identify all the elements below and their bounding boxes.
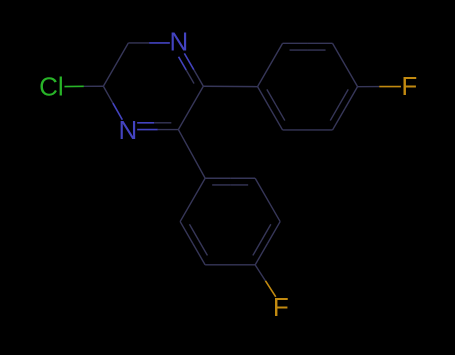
lower phenyl double V5=V6 — [180, 222, 207, 265]
upper phenyl edge P3-P4 — [333, 43, 358, 86]
upper phenyl double P2=P3 (top) — [283, 43, 333, 50]
upper phenyl double P6=P1 — [258, 87, 285, 130]
lower phenyl edge V6-V1 — [180, 178, 205, 221]
lower phenyl edge V4-V5 — [205, 264, 255, 266]
double bond N4=C5a (top-right) — [179, 53, 204, 86]
svg-text:N: N — [169, 27, 188, 57]
lower phenyl edge V2-V3 — [255, 178, 280, 221]
upper phenyl double P4=P5 — [330, 87, 357, 130]
lower phenyl double V1=V2 (top) — [205, 178, 255, 185]
bond C-F (upper) — [358, 86, 401, 88]
svg-text:N: N — [118, 115, 137, 145]
bond C2-N1 (to bottom N) — [103, 86, 122, 120]
bond C2-Cl — [64, 85, 103, 87]
svg-text:F: F — [273, 292, 289, 322]
bond pyrazine-to-lower-phenyl — [178, 130, 205, 179]
double bond N1=C6a (bottom) — [137, 123, 178, 130]
svg-text:F: F — [401, 71, 417, 101]
bond C3-N4 (to top N) — [128, 42, 170, 44]
svg-text:Cl: Cl — [39, 72, 64, 102]
bond C2-C3 (pyrazine left edge) — [103, 43, 128, 86]
bond C5a-C6a (pyrazine right edge) — [178, 86, 203, 129]
upper phenyl edge P1-P2 — [258, 43, 283, 86]
bond C-F (lower) — [255, 265, 276, 297]
bond pyrazine-to-upper-phenyl — [203, 85, 257, 87]
lower phenyl double V3=V4 — [253, 222, 280, 265]
upper phenyl edge P5-P6 — [283, 129, 333, 131]
